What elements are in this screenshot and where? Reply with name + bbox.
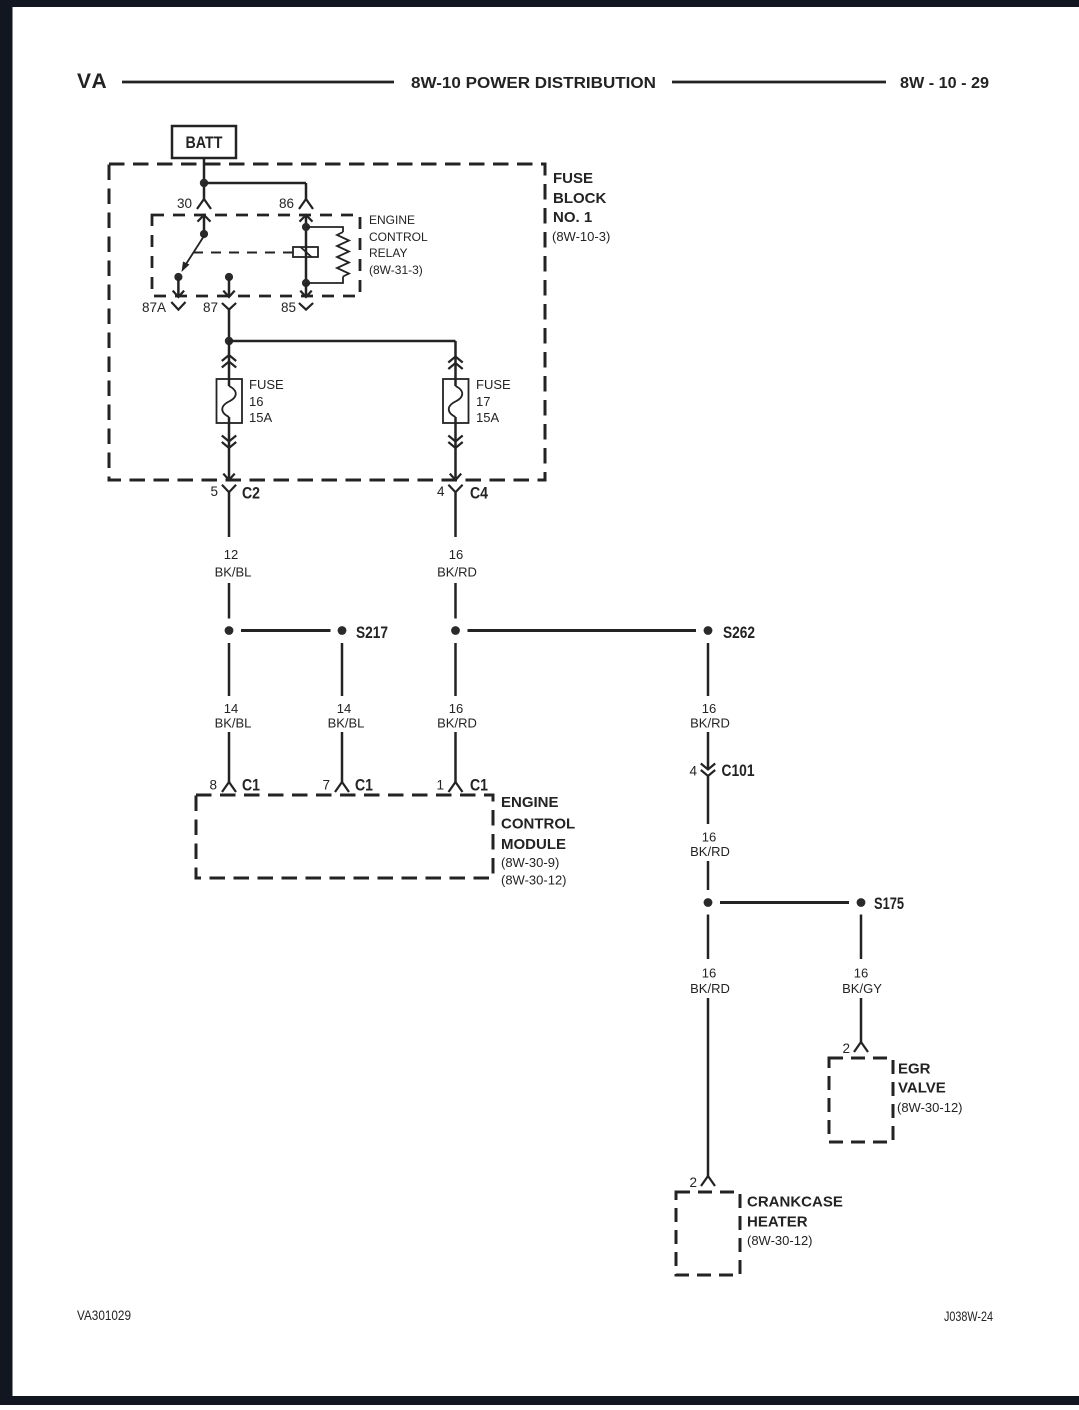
svg-text:4: 4: [437, 484, 445, 499]
wire S217 left leg down: [228, 643, 231, 696]
wire C101 down: [707, 776, 710, 824]
svg-text:BK/GY: BK/GY: [842, 981, 882, 996]
fuse block no.1 dashed box: [109, 164, 545, 480]
connector C4 boundary arrow: [450, 474, 461, 480]
resistor zigzag: [337, 232, 349, 277]
svg-text:16: 16: [702, 701, 716, 716]
svg-text:NO. 1: NO. 1: [553, 209, 592, 226]
fuse block label: [552, 170, 610, 244]
wire label 16 BK/RD mid: [437, 701, 477, 731]
connector C2 boundary arrow: [223, 474, 234, 480]
svg-text:CONTROL: CONTROL: [501, 816, 575, 833]
wire label 12 BK/BL: [215, 547, 252, 580]
battery feed BATT box: [172, 126, 236, 158]
svg-text:(8W-31-3): (8W-31-3): [369, 263, 423, 277]
svg-text:RELAY: RELAY: [369, 246, 407, 260]
svg-text:15A: 15A: [476, 410, 499, 425]
svg-text:8W - 10 - 29: 8W - 10 - 29: [900, 75, 989, 92]
svg-text:BATT: BATT: [186, 133, 224, 152]
svg-text:(8W-10-3): (8W-10-3): [552, 229, 610, 244]
relay coil box: [293, 247, 318, 257]
svg-text:7: 7: [322, 778, 330, 793]
wire C4 down: [454, 492, 457, 537]
svg-text:C4: C4: [470, 484, 488, 503]
svg-text:VA301029: VA301029: [77, 1307, 131, 1323]
svg-text:FUSE: FUSE: [249, 377, 284, 392]
wire to crankcase heater: [707, 998, 710, 1176]
pin 30 connector fork: [197, 199, 211, 209]
svg-text:85: 85: [281, 300, 296, 315]
wire BATT to junction: [203, 158, 206, 183]
fuse 16 lower terminal chevrons: [222, 436, 236, 442]
splice S175 node right: [857, 898, 866, 907]
svg-text:BK/RD: BK/RD: [690, 981, 730, 996]
svg-text:8: 8: [209, 778, 217, 793]
svg-text:J038W-24: J038W-24: [944, 1308, 993, 1324]
node coil top: [302, 223, 310, 231]
wire junction to fuse17 branch: [229, 340, 456, 343]
splice S217 node right: [338, 626, 347, 635]
svg-text:16: 16: [449, 547, 463, 562]
svg-text:S217: S217: [356, 623, 388, 642]
svg-text:BK/BL: BK/BL: [215, 716, 252, 731]
EGR valve label: [897, 1061, 963, 1116]
wire fuse17 to C4: [454, 417, 457, 478]
wire 87 to boundary: [228, 277, 231, 296]
svg-text:HEATER: HEATER: [747, 1214, 808, 1231]
svg-text:15A: 15A: [249, 410, 272, 425]
wire label 16 BK/GY: [842, 966, 882, 997]
wire S262 right leg down: [707, 643, 710, 696]
connector C2 female Y: [222, 485, 236, 492]
svg-text:2: 2: [689, 1175, 697, 1190]
wire down to fuse 16: [228, 341, 231, 386]
fuse 17 terminal chevrons: [448, 357, 462, 363]
page border band bottom: [0, 1396, 1079, 1405]
EGR valve dashed box: [829, 1058, 893, 1142]
splice S175 node left: [704, 898, 713, 907]
wire stub to pin 30: [203, 183, 206, 199]
svg-text:EGR: EGR: [898, 1061, 931, 1078]
svg-text:BLOCK: BLOCK: [553, 190, 606, 207]
svg-text:1: 1: [436, 778, 444, 793]
fuse 16 element squiggle: [222, 386, 236, 417]
svg-text:VALVE: VALVE: [898, 1080, 946, 1097]
node fuse feed junction: [225, 337, 233, 345]
node coil bottom: [302, 279, 310, 287]
splice S217 bus: [241, 629, 331, 632]
node switch pivot: [200, 230, 208, 238]
header rule right: [672, 81, 886, 84]
splice S175 bus: [720, 901, 849, 904]
wire to C101: [707, 732, 710, 770]
fuse 17 lower terminal chevrons: [448, 436, 462, 442]
svg-text:C1: C1: [242, 776, 260, 795]
pin 30 boundary arrow: [198, 215, 211, 222]
wire label 16 BK/RD: [437, 547, 477, 580]
fuse 16 body: [217, 379, 243, 423]
svg-text:14: 14: [337, 701, 351, 716]
crankcase heater dashed box: [676, 1192, 740, 1275]
svg-text:CONTROL: CONTROL: [369, 230, 428, 244]
svg-text:14: 14: [224, 701, 238, 716]
pin 86 boundary arrow: [300, 215, 313, 222]
svg-text:(8W-30-12): (8W-30-12): [747, 1233, 813, 1248]
pin 85 boundary arrow: [300, 291, 311, 297]
fuse 17 element squiggle: [449, 386, 463, 417]
engine control module label: [501, 794, 575, 888]
engine control relay dashed box: [152, 215, 360, 296]
wire to splice S175: [707, 861, 710, 890]
svg-text:16: 16: [854, 966, 868, 981]
node junction below BATT: [200, 179, 208, 187]
svg-text:C101: C101: [722, 761, 755, 780]
relay switch arm to 87A: [182, 236, 205, 272]
wire junction to pin86 branch: [204, 182, 306, 185]
wire pin87 down to fuse junction: [228, 310, 231, 341]
wire label 16 BK/RD below C101: [690, 830, 730, 860]
wire fuse16 to C2: [228, 417, 231, 478]
page border band top: [0, 0, 1079, 7]
svg-text:BK/RD: BK/RD: [690, 716, 730, 731]
svg-text:BK/BL: BK/BL: [215, 565, 252, 580]
resistor bottom lead: [306, 277, 343, 284]
svg-text:16: 16: [249, 394, 263, 409]
wire down to fuse 17: [454, 341, 457, 386]
svg-text:(8W-30-12): (8W-30-12): [501, 873, 567, 888]
svg-text:16: 16: [449, 701, 463, 716]
wire label 16 BK/RD right: [690, 701, 730, 731]
fuse 17 body: [443, 379, 469, 423]
svg-text:30: 30: [177, 196, 192, 211]
wire S175 right leg down: [860, 915, 863, 960]
relay label: [369, 213, 428, 277]
pin 87A boundary arrow: [173, 291, 184, 297]
svg-text:4: 4: [689, 764, 697, 779]
svg-text:FUSE: FUSE: [553, 170, 593, 187]
wire S217 right leg down: [341, 643, 344, 696]
svg-text:86: 86: [279, 196, 294, 211]
node 87: [225, 273, 233, 281]
wire C2 down: [228, 492, 231, 537]
connector C101 chevrons: [701, 764, 715, 770]
svg-text:S262: S262: [723, 623, 755, 642]
svg-text:(8W-30-9): (8W-30-9): [501, 855, 559, 870]
svg-text:5: 5: [210, 484, 218, 499]
relay common wire pin30 to switch pivot: [203, 215, 206, 234]
splice S217 node left: [225, 626, 234, 635]
wire 87A to boundary: [177, 277, 180, 296]
svg-text:16: 16: [702, 830, 716, 845]
svg-text:CRANKCASE: CRANKCASE: [747, 1194, 843, 1211]
splice S262 node left: [451, 626, 460, 635]
engine control module dashed box: [196, 795, 493, 878]
wire to C1 pin1: [454, 732, 457, 782]
fuse 16 terminal chevrons: [222, 355, 236, 361]
svg-text:FUSE: FUSE: [476, 377, 511, 392]
wire label 16 BK/RD bottom: [690, 966, 730, 997]
svg-text:MODULE: MODULE: [501, 836, 566, 853]
svg-text:12: 12: [224, 547, 238, 562]
svg-text:BK/BL: BK/BL: [328, 716, 365, 731]
wire to C1 pin8: [228, 732, 231, 782]
splice S262 bus: [468, 629, 697, 632]
svg-text:8W-10 POWER DISTRIBUTION: 8W-10 POWER DISTRIBUTION: [411, 75, 656, 92]
svg-text:BK/RD: BK/RD: [437, 565, 477, 580]
wire to splice S217: [228, 583, 231, 619]
pin 87A female connector: [171, 302, 185, 310]
pin 87 boundary arrow: [223, 291, 234, 297]
connector C1 pin1 fork: [449, 782, 463, 792]
header rule left: [122, 81, 394, 84]
svg-text:C2: C2: [242, 484, 260, 503]
pin 87 female connector Y: [222, 303, 236, 310]
svg-text:S175: S175: [874, 894, 904, 913]
node 87A: [174, 273, 182, 281]
wire stub to pin 86: [305, 183, 308, 199]
wire S262 left leg down: [454, 643, 457, 696]
svg-text:VA: VA: [77, 70, 109, 93]
svg-text:(8W-30-12): (8W-30-12): [897, 1100, 963, 1115]
EGR pin 2 fork: [854, 1042, 868, 1052]
wire to C1 pin7: [341, 732, 344, 782]
pin 86 connector fork: [299, 199, 313, 209]
relay coil wire pin86: [305, 215, 308, 283]
relay linkage dashed line: [193, 252, 293, 254]
svg-text:ENGINE: ENGINE: [501, 794, 559, 811]
svg-text:BK/RD: BK/RD: [690, 844, 730, 859]
wire coil bottom to pin85: [305, 283, 308, 296]
svg-text:17: 17: [476, 394, 490, 409]
connector C1 pin8 fork: [222, 782, 236, 792]
crankcase heater label: [747, 1194, 843, 1249]
fuse 16 label: [249, 377, 284, 425]
wire S175 left leg down: [707, 915, 710, 960]
svg-text:87: 87: [203, 300, 218, 315]
svg-text:C1: C1: [470, 776, 488, 795]
connector C1 pin7 fork: [335, 782, 349, 792]
svg-text:BK/RD: BK/RD: [437, 716, 477, 731]
page border band left: [0, 0, 13, 1405]
wire label 14 BK/BL left: [215, 701, 252, 731]
wire to EGR valve: [860, 998, 863, 1042]
splice S262 node right: [704, 626, 713, 635]
svg-text:ENGINE: ENGINE: [369, 213, 415, 227]
pin 85 female connector: [299, 303, 313, 310]
svg-text:2: 2: [842, 1041, 850, 1056]
svg-text:87A: 87A: [142, 300, 166, 315]
connector C4 female Y: [448, 485, 462, 492]
svg-text:16: 16: [702, 966, 716, 981]
wire label 14 BK/BL right: [328, 701, 365, 731]
resistor top lead: [306, 227, 343, 232]
fuse 17 label: [476, 377, 511, 425]
crankcase heater pin 2 fork: [701, 1176, 715, 1186]
svg-text:C1: C1: [355, 776, 373, 795]
wire to splice S262: [454, 583, 457, 619]
